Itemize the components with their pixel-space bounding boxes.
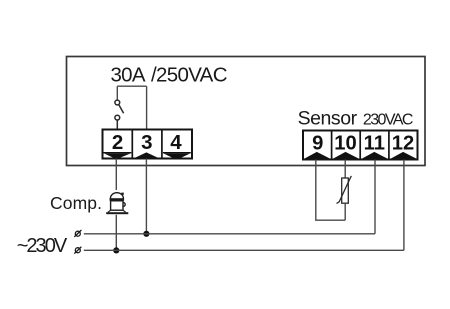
junction: compressor wire on lower mains line — [113, 247, 119, 253]
sensor thermistor body — [342, 178, 349, 203]
svg-text:10: 10 — [334, 132, 356, 154]
svg-text:30A: 30A — [111, 64, 146, 87]
svg-text:11: 11 — [364, 132, 385, 154]
relay switch contact — [115, 100, 124, 129]
svg-text:12: 12 — [392, 132, 414, 154]
mains terminal upper — [74, 230, 81, 237]
svg-text:9: 9 — [312, 132, 323, 154]
wire: terminal 3 to line L — [145, 159, 147, 234]
terminal 2 clamp — [104, 153, 132, 159]
terminal 4 clamp — [163, 153, 191, 158]
wire: terminal 11 down to line L — [374, 160, 376, 234]
mains terminal lower — [74, 247, 81, 254]
wire: lower mains line N — [84, 249, 404, 251]
svg-text:Comp.: Comp. — [50, 193, 102, 213]
svg-text:2: 2 — [112, 131, 123, 154]
wire: terminal 2 to compressor — [115, 159, 117, 191]
terminal 12 clamp — [391, 152, 417, 159]
svg-text:~230V: ~230V — [17, 235, 68, 257]
wire: terminal 9 down — [316, 160, 345, 221]
wire: down to switch contact — [116, 86, 118, 100]
svg-text:/250VAC: /250VAC — [151, 64, 228, 87]
svg-text:3: 3 — [141, 131, 152, 154]
svg-text:Sensor: Sensor — [298, 108, 358, 130]
wire: switch top feed — [117, 85, 146, 87]
wire: sensor bottom — [344, 203, 346, 220]
svg-text:230VAC: 230VAC — [363, 112, 414, 129]
wire: terminal 10 down to sensor — [344, 160, 346, 178]
wire: terminal 12 down to line N — [403, 160, 405, 251]
wire: compressor to line N — [115, 215, 117, 251]
terminal 3 clamp — [133, 152, 160, 158]
terminal block 2 3 4 — [103, 130, 193, 159]
terminal block 9 10 11 12 — [303, 131, 418, 160]
wire: down to terminal 3 — [146, 86, 148, 129]
compressor symbol — [106, 193, 128, 215]
svg-text:4: 4 — [170, 131, 182, 154]
controller box outline — [67, 57, 426, 166]
terminal 10 clamp — [333, 152, 359, 159]
terminal 9 clamp — [304, 152, 330, 159]
terminal 11 clamp — [362, 152, 388, 159]
wire: upper mains line L — [84, 233, 375, 235]
junction: wire3 on upper mains line — [143, 231, 149, 237]
sensor thermistor slash — [337, 176, 352, 204]
